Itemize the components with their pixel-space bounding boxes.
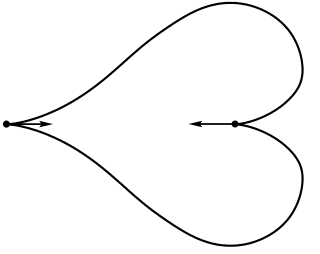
arrow at P2 (pointing left) xyxy=(198,123,235,125)
arrow at P1 (pointing right) xyxy=(6,123,44,125)
point P1 (left cusp) xyxy=(3,121,10,128)
point P2 (right cusp) xyxy=(232,121,239,128)
